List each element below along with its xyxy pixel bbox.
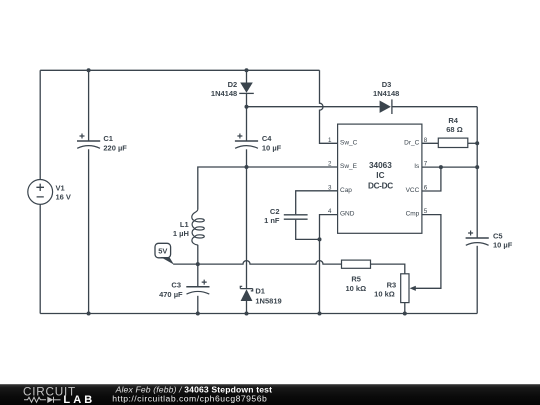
svg-text:6: 6 [424, 184, 428, 191]
svg-text:IC: IC [376, 171, 384, 180]
svg-text:D2: D2 [228, 80, 238, 89]
wire C1 bottom branch [88, 149, 90, 313]
capacitor C4 [235, 134, 258, 149]
diode D2 [239, 83, 254, 94]
svg-text:http://circuitlab.com/cph6ucg8: http://circuitlab.com/cph6ucg87956b [112, 394, 267, 404]
resistor R5 [342, 260, 371, 268]
wire R5 to R3 top [371, 264, 405, 274]
wire right column vertical [476, 107, 478, 238]
svg-text:D3: D3 [382, 80, 392, 89]
node junction R4 / right column [475, 141, 479, 145]
svg-text:1 nF: 1 nF [264, 216, 280, 225]
svg-text:LAB: LAB [63, 394, 95, 405]
svg-text:1: 1 [328, 137, 332, 144]
node 5V flag [155, 243, 174, 264]
svg-text:1 µH: 1 µH [173, 229, 189, 238]
svg-text:Cap: Cap [340, 187, 352, 194]
svg-text:V1: V1 [56, 183, 65, 192]
node junction top C1 [87, 68, 91, 72]
svg-text:L1: L1 [180, 220, 189, 229]
svg-text:R4: R4 [448, 116, 458, 125]
svg-text:DC-DC: DC-DC [368, 181, 393, 190]
node junction top D2 [245, 68, 249, 72]
svg-text:Is: Is [414, 163, 420, 170]
svg-text:1N5819: 1N5819 [255, 297, 281, 306]
svg-text:1N4148: 1N4148 [373, 89, 399, 98]
wire GND pin4 branch [320, 215, 338, 314]
wire 5V flag to R5 with hops [173, 261, 341, 265]
node junction C4 / Sw_E [245, 165, 249, 169]
CircuitLab logo resistor zigzag and diode [24, 397, 61, 403]
svg-text:5V: 5V [158, 247, 167, 256]
wire C2 bottom to GND column [296, 220, 320, 240]
node junction C2 / GND [318, 237, 322, 241]
svg-text:Dr_C: Dr_C [404, 139, 419, 146]
capacitor C3 [186, 280, 209, 295]
svg-text:16 V: 16 V [56, 192, 71, 201]
svg-text:Sw_E: Sw_E [340, 163, 358, 170]
wire Sw_E node down to D1 [246, 167, 248, 289]
svg-text:2: 2 [328, 161, 332, 168]
wire R4 to right column [468, 142, 477, 144]
svg-text:Sw_C: Sw_C [340, 139, 358, 146]
diode D1 (schottky) [240, 286, 252, 301]
svg-text:68 Ω: 68 Ω [446, 125, 462, 134]
resistor R4 [438, 138, 468, 147]
node junction Is / VCC [439, 165, 443, 169]
svg-text:470 µF: 470 µF [159, 290, 183, 299]
svg-text:Cmp: Cmp [406, 211, 420, 218]
capacitor C1 [77, 134, 100, 149]
svg-text:R5: R5 [351, 275, 361, 284]
diode D3 [380, 99, 392, 114]
wire C3 bottom branch [197, 296, 199, 314]
svg-text:10 kΩ: 10 kΩ [345, 284, 366, 293]
node junction rail GND [318, 312, 322, 316]
wire C4 bottom to Sw_E node [246, 149, 248, 167]
footer bar [0, 384, 540, 405]
wire Is pin7 to right column [422, 166, 477, 168]
svg-text:10 kΩ: 10 kΩ [374, 290, 395, 299]
svg-text:VCC: VCC [406, 187, 420, 194]
wire D3 cathode to right column [392, 106, 477, 108]
svg-text:8: 8 [424, 137, 428, 144]
potentiometer R3 [401, 274, 416, 303]
node junction L1 / 5V [196, 262, 200, 266]
svg-text:C2: C2 [270, 207, 280, 216]
wire C5 bottom to rail [476, 246, 478, 314]
voltage source V1 [28, 180, 53, 205]
wire Sw_E horizontal to L1 [198, 167, 338, 209]
wire C3 top branch [197, 264, 199, 287]
svg-text:GND: GND [340, 211, 355, 218]
wire top rail [40, 69, 319, 71]
svg-text:5: 5 [424, 208, 428, 215]
wire C1 top branch [88, 70, 90, 141]
svg-text:7: 7 [424, 161, 428, 168]
wire bottom ground rail [40, 313, 477, 315]
svg-text:C5: C5 [493, 232, 503, 241]
svg-text:C4: C4 [262, 134, 272, 143]
wire D2 cathode to C4 [246, 93, 248, 141]
svg-text:D1: D1 [255, 287, 265, 296]
wire D2 column top [246, 70, 248, 82]
svg-text:10 µF: 10 µF [493, 241, 513, 250]
node junction D2 bottom / D3 [245, 105, 249, 109]
node junction rail C3 [196, 312, 200, 316]
svg-text:10 µF: 10 µF [262, 143, 282, 152]
svg-text:4: 4 [328, 208, 332, 215]
svg-text:C1: C1 [103, 134, 113, 143]
wire Cap pin3 to C2 [296, 191, 338, 214]
node junction Is / right column [475, 165, 479, 169]
svg-text:220 µF: 220 µF [103, 144, 127, 153]
inductor L1 [192, 209, 205, 245]
wire R3 bottom to rail [404, 303, 406, 314]
svg-text:3: 3 [328, 184, 332, 191]
wire L1 bottom to 5V node [197, 245, 199, 264]
wire left vertical from top rail to V1 [39, 70, 41, 179]
svg-text:R3: R3 [387, 280, 397, 289]
capacitor C2 [284, 215, 308, 219]
node junction rail C1 [87, 312, 91, 316]
IC U1 34063 box [338, 124, 422, 233]
wire VCC jog from Is node [422, 167, 441, 191]
wire D1 to ground rail [246, 301, 248, 314]
wire Sw_C branch with hop over D3 wire [320, 70, 338, 143]
svg-text:34063: 34063 [369, 161, 392, 170]
node junction rail D1 [245, 312, 249, 316]
svg-text:C3: C3 [171, 281, 181, 290]
wire Cmp pin5 to R3 wiper [415, 215, 441, 289]
capacitor C5 [466, 231, 489, 246]
svg-text:1N4148: 1N4148 [211, 89, 237, 98]
wire V1 bottom to ground rail corner [39, 204, 41, 313]
wire Dr_C pin8 to R4 [422, 142, 438, 144]
wire D3 node horizontal [247, 106, 380, 108]
node junction rail R3 [403, 312, 407, 316]
